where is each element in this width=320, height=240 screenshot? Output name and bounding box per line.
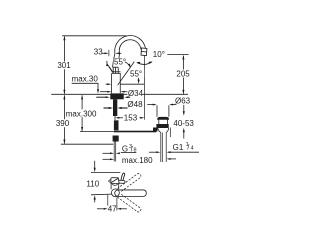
Ø34 text <box>127 90 142 97</box>
spout left leg outer <box>113 53 115 67</box>
33 right arrow <box>115 52 119 54</box>
max.300 bottom reference line <box>80 131 114 133</box>
supply hoses <box>114 142 116 162</box>
40-53 up arrow <box>183 128 185 132</box>
spout left leg inner <box>119 53 120 63</box>
47 text <box>107 206 116 213</box>
110 bottom arrow <box>94 195 96 199</box>
bottom reference line <box>91 193 112 196</box>
110 top arrow <box>94 161 96 170</box>
Ø48 leader arrows <box>96 96 106 98</box>
Ø63 extension lines <box>156 105 158 117</box>
spout outlet level line (left of body) <box>106 83 108 85</box>
countertop line <box>51 93 188 95</box>
55° no.2 down arrow <box>138 78 140 81</box>
side view: hub outer ring <box>111 189 119 197</box>
390 bottom reference line <box>61 143 114 145</box>
drain tailpipe <box>161 133 166 163</box>
svg-text:Ø48: Ø48 <box>127 100 143 109</box>
svg-text:390: 390 <box>56 119 70 128</box>
55° no.2 text <box>130 70 145 77</box>
pop-up rod port <box>153 128 158 132</box>
side view: head diagonal <box>111 178 118 183</box>
lower connection block <box>114 120 119 130</box>
spout outlet level line (right of body) <box>120 83 144 85</box>
55° no.1 text <box>114 59 125 65</box>
base plate <box>110 93 123 99</box>
aerator outlet box <box>141 48 147 56</box>
G1 1/4 arrows <box>149 151 157 153</box>
Ø63 arrows <box>147 104 153 106</box>
ghost spout upper <box>117 174 140 193</box>
pop-up rod <box>114 131 156 133</box>
drain body right ext line <box>169 128 171 138</box>
side view: body <box>111 184 119 190</box>
max.180 arrow <box>103 158 112 160</box>
G3/8 arrows <box>103 152 112 154</box>
Ø63 down leader <box>183 105 185 113</box>
tailpipe lower left arrow <box>166 158 170 160</box>
dimension max.300 <box>81 95 83 131</box>
svg-text:55°: 55° <box>114 58 126 67</box>
dimension 390 <box>63 95 65 144</box>
svg-text:4: 4 <box>191 146 194 152</box>
svg-text:Ø63: Ø63 <box>175 96 191 105</box>
dimension 205 <box>182 55 184 94</box>
top reference line <box>91 172 120 174</box>
drain locknut <box>156 124 168 128</box>
55° no.1 right arc arrow <box>125 62 130 67</box>
shank side arms <box>104 107 111 109</box>
Ø34 leader arrows <box>100 91 108 93</box>
svg-text:47: 47 <box>108 205 117 214</box>
svg-text:301: 301 <box>57 61 71 70</box>
body top flange <box>112 72 121 74</box>
dimension 153 <box>114 115 116 121</box>
svg-text:max.180: max.180 <box>122 156 153 165</box>
side view: body waist arc <box>112 184 118 185</box>
55° no.1 left arc arrow <box>107 61 109 66</box>
top reference line <box>62 35 126 37</box>
svg-text:max.30: max.30 <box>72 74 99 83</box>
svg-text:40-53: 40-53 <box>173 119 194 128</box>
svg-text:G1: G1 <box>173 143 184 152</box>
outlet axis vertical line <box>143 56 145 120</box>
svg-text:153: 153 <box>124 113 138 122</box>
handle 55° no.1: tilted lever line <box>109 67 113 73</box>
side view: spout tube <box>115 190 147 196</box>
10° arc with arrowheads <box>137 62 152 64</box>
drain flange top <box>157 117 169 119</box>
side view: lever grip <box>119 180 126 183</box>
spout inner arc <box>119 40 141 54</box>
cartridge stem <box>113 67 118 73</box>
svg-text:/: / <box>187 145 189 152</box>
svg-text:205: 205 <box>176 70 190 79</box>
47 arrows <box>97 208 105 210</box>
svg-text:55°: 55° <box>130 69 142 78</box>
55° no.2 angle line <box>118 62 135 86</box>
faucet body <box>112 73 121 93</box>
svg-text:Ø34: Ø34 <box>128 89 144 98</box>
47 left extension line <box>107 195 109 211</box>
drain body taper <box>158 128 169 133</box>
side view: head block left lug <box>109 180 111 182</box>
dimension 301 <box>63 36 65 94</box>
spout outer arc <box>115 36 146 54</box>
10° reference line <box>167 53 188 55</box>
svg-text:max.300: max.300 <box>66 109 97 118</box>
svg-text:33: 33 <box>94 47 103 56</box>
svg-text:G: G <box>122 144 128 153</box>
G3/8 nipple <box>113 136 119 142</box>
ghost spout lower <box>117 193 140 212</box>
drain neck <box>157 119 169 124</box>
side view: lever upturned tip <box>121 173 125 181</box>
47 right extension line <box>116 198 118 211</box>
33 tick <box>108 50 110 56</box>
side view: head block <box>111 178 119 184</box>
svg-text:10°: 10° <box>153 50 165 59</box>
svg-text:110: 110 <box>86 180 99 189</box>
threaded shank <box>113 99 117 116</box>
